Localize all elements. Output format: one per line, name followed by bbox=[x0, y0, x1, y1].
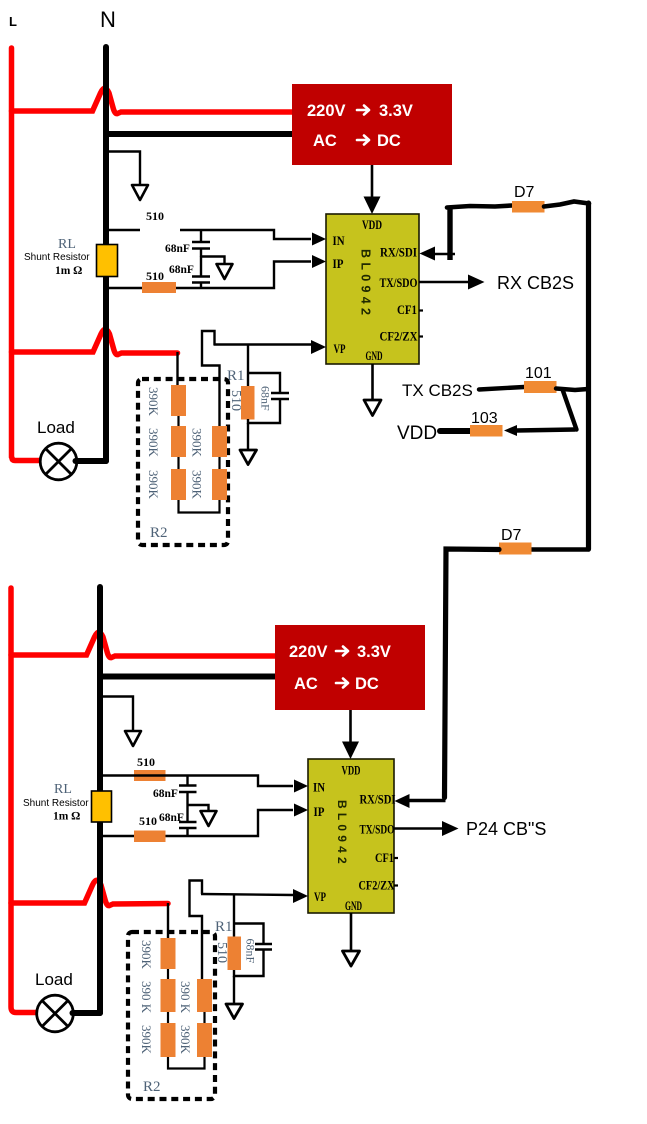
svg-text:68nF: 68nF bbox=[153, 788, 178, 800]
svg-text:DC: DC bbox=[355, 675, 379, 693]
svg-text:RX/SDI: RX/SDI bbox=[380, 246, 417, 260]
svg-text:CF1: CF1 bbox=[375, 851, 394, 865]
svg-text:TX/SDO: TX/SDO bbox=[360, 823, 395, 837]
wire N to converter (black) bbox=[106, 131, 292, 137]
wire c1r1 to c1r2 bbox=[177, 416, 179, 426]
svg-text:IN: IN bbox=[313, 781, 326, 795]
wire IN input 2 bbox=[100, 776, 293, 787]
wire IN input bbox=[106, 230, 311, 239]
svg-text:P24 CB"S: P24 CB"S bbox=[466, 819, 546, 839]
svg-text:VP: VP bbox=[334, 342, 346, 356]
wire TX/SDO output 2 bbox=[394, 827, 444, 830]
svg-text:R1: R1 bbox=[215, 919, 233, 935]
ground symbol G5 bbox=[125, 731, 141, 746]
wire red AC line to converter 2 (with hop over N) bbox=[11, 632, 275, 657]
svg-text:VP: VP bbox=[314, 890, 326, 904]
svg-text:510: 510 bbox=[146, 269, 164, 283]
wire red line to R2 divider (with hop over N) bbox=[12, 329, 178, 354]
svg-text:AC: AC bbox=[313, 132, 337, 150]
pin stub CF2/ZX U2 bbox=[394, 884, 398, 886]
svg-text:TX/SDO: TX/SDO bbox=[380, 276, 418, 290]
resistor 103 body bbox=[470, 425, 503, 437]
svg-text:510: 510 bbox=[139, 814, 157, 828]
svg-text:3.3V: 3.3V bbox=[379, 102, 413, 120]
op IC U1 BL0942 bbox=[326, 214, 419, 364]
converter U-PSU1 220V to 3.3V bbox=[292, 84, 452, 165]
shunt resistor RL body (circuit 2) bbox=[92, 791, 112, 822]
svg-text:390K: 390K bbox=[178, 1025, 193, 1055]
resistor 390K c1r3 body bbox=[171, 469, 186, 500]
svg-text:DC: DC bbox=[377, 132, 401, 150]
wire D7 lower to circuit 2 RX/SDI bbox=[445, 549, 500, 798]
svg-text:IP: IP bbox=[314, 805, 325, 819]
capacitor 68nF lower (C4) bbox=[179, 805, 197, 836]
wire GND of U1 bbox=[371, 364, 374, 399]
svg-text:BL0942: BL0942 bbox=[335, 800, 349, 868]
wire red line into R2 column 1 bbox=[176, 352, 178, 385]
wire c2r2 to c2r3 bbox=[218, 457, 220, 469]
wire diagonal node to VDD row bbox=[563, 391, 577, 430]
resistor D7 (upper) body bbox=[512, 201, 545, 213]
wire N line (black vertical, circuit 2) bbox=[97, 587, 103, 1013]
resistor 390K c2r2 body 2 bbox=[197, 979, 212, 1012]
wire TX/SDO output bbox=[419, 281, 470, 284]
svg-text:IP: IP bbox=[333, 257, 344, 271]
wire to D7 (thick, hand drawn) bbox=[447, 206, 512, 208]
svg-text:101: 101 bbox=[525, 365, 552, 382]
svg-text:68nF: 68nF bbox=[165, 243, 190, 255]
resistor 390K c1r3 body 2 bbox=[161, 1023, 176, 1057]
svg-text:510: 510 bbox=[146, 209, 164, 223]
resistor 510 lower body (circuit 2) bbox=[134, 831, 166, 843]
pin stub CF1 U2 bbox=[394, 857, 398, 859]
resistor R1 body 2 bbox=[228, 937, 242, 971]
resistor 390K c2r3 body bbox=[212, 469, 227, 500]
wire R1 bottom to ground 2 bbox=[233, 976, 235, 1003]
svg-text:390 K: 390 K bbox=[139, 981, 154, 1014]
arrow TX/SDO out bbox=[468, 275, 485, 290]
wire rail to D7 lower bbox=[531, 547, 589, 552]
pin arrow into IP 2 bbox=[294, 804, 308, 817]
wire red line into R2 column 1 (circuit 2) bbox=[167, 903, 169, 938]
pin arrow into RX/SDI circuit 2 bbox=[395, 794, 410, 808]
wire R2 bottom link 2 bbox=[168, 1057, 205, 1069]
svg-text:68nF: 68nF bbox=[159, 812, 184, 824]
pin arrow into IP bbox=[312, 255, 326, 268]
resistor 390K c1r1 body bbox=[171, 385, 186, 416]
svg-text:RX CB2S: RX CB2S bbox=[497, 273, 574, 293]
wire VDD supply into U1 bbox=[364, 165, 381, 214]
svg-text:R2: R2 bbox=[150, 525, 168, 541]
wire main rail vertical bbox=[586, 203, 591, 549]
ground symbol G3 below U1 bbox=[364, 400, 381, 416]
wire VP node down to R1 (circuit 2) bbox=[233, 895, 235, 937]
pin arrow into VP 2 bbox=[293, 889, 308, 903]
load lamp symbol 2 bbox=[37, 995, 74, 1032]
svg-text:68nF: 68nF bbox=[259, 386, 273, 411]
wire N line (black vertical, circuit 1) bbox=[103, 47, 109, 461]
capacitor 68nF upper (C1) bbox=[192, 230, 210, 257]
resistor 390K c2r3 body 2 bbox=[197, 1023, 212, 1057]
resistor network R2 dashed box 2 bbox=[128, 932, 215, 1099]
arrow TX/SDO out 2 bbox=[442, 821, 459, 836]
svg-text:GND: GND bbox=[345, 899, 362, 913]
svg-text:CF2/ZX: CF2/ZX bbox=[380, 330, 419, 344]
wire VP node down to R1 bbox=[247, 345, 249, 387]
svg-text:RX/SDI: RX/SDI bbox=[360, 793, 396, 807]
svg-text:VDD: VDD bbox=[362, 218, 382, 232]
capacitor 68nF beside R1 (circuit 2) bbox=[234, 924, 272, 977]
svg-text:220V: 220V bbox=[289, 643, 328, 661]
wire red line to R2 divider 2 (with hop over N) bbox=[11, 880, 168, 905]
svg-text:N: N bbox=[100, 7, 116, 32]
wire c2r2 to c2r3 (2) bbox=[203, 1012, 205, 1023]
wire D7 to rail bbox=[544, 202, 589, 207]
svg-text:390K: 390K bbox=[139, 1025, 154, 1055]
wire R2 bottom link bbox=[179, 500, 220, 513]
wire RX/SDI thick lead bbox=[434, 253, 455, 256]
ground symbol G1 bbox=[132, 185, 148, 200]
svg-text:R2: R2 bbox=[143, 1079, 161, 1095]
svg-text:RL: RL bbox=[54, 782, 72, 797]
pin arrow into IN bbox=[312, 233, 326, 246]
wire c1r2 to c1r3 bbox=[177, 457, 179, 469]
ground symbol G8 bbox=[226, 1004, 243, 1019]
ground stub from N (circuit 1) bbox=[106, 152, 140, 185]
wire GND of U2 bbox=[350, 913, 353, 950]
resistor 390K c1r2 body bbox=[171, 426, 186, 457]
svg-text:CF2/ZX: CF2/ZX bbox=[359, 879, 396, 893]
svg-text:RL: RL bbox=[58, 237, 76, 252]
resistor 390K c1r1 body 2 bbox=[161, 938, 176, 969]
svg-text:CF1: CF1 bbox=[397, 303, 417, 317]
wire c1r2 to c1r3 (2) bbox=[167, 1012, 169, 1023]
pin stub CF1 U1 bbox=[419, 309, 423, 311]
wire lamp to N bbox=[76, 458, 107, 464]
wire c1r1 to c1r2 (2) bbox=[167, 969, 169, 979]
svg-text:Shunt Resistor: Shunt Resistor bbox=[23, 798, 89, 809]
ground symbol G7 below U2 bbox=[343, 951, 360, 966]
capacitor 68nF upper (C3) bbox=[179, 776, 197, 806]
svg-text:D7: D7 bbox=[501, 527, 522, 544]
wire R1 bottom to ground bbox=[247, 423, 249, 449]
pin arrow into IN 2 bbox=[294, 780, 308, 793]
resistor 101 body bbox=[524, 381, 557, 393]
wire VDD supply into U2 bbox=[342, 710, 359, 759]
svg-text:390K: 390K bbox=[139, 940, 154, 970]
resistor network R2 dashed box bbox=[138, 379, 228, 545]
wire lamp to N 2 bbox=[73, 1010, 101, 1016]
svg-text:390K: 390K bbox=[146, 428, 161, 458]
resistor 390K c2r2 body bbox=[212, 426, 227, 457]
wire VDD thick stub bbox=[440, 428, 471, 434]
svg-text:Shunt Resistor: Shunt Resistor bbox=[24, 252, 90, 263]
op IC U2 BL0942 bbox=[308, 759, 396, 913]
capacitor 68nF beside R1 (branch) bbox=[248, 373, 289, 423]
svg-text:220V: 220V bbox=[307, 102, 346, 120]
svg-text:1m Ω: 1m Ω bbox=[53, 811, 80, 823]
svg-text:IN: IN bbox=[333, 234, 346, 248]
svg-text:510: 510 bbox=[228, 390, 243, 411]
svg-text:VDD: VDD bbox=[342, 764, 361, 778]
wire red AC line to converter (with hop over N) bbox=[12, 88, 293, 113]
wire N to converter 2 (black) bbox=[100, 674, 275, 680]
svg-text:3.3V: 3.3V bbox=[357, 643, 391, 661]
svg-text:510: 510 bbox=[137, 755, 155, 769]
svg-text:68nF: 68nF bbox=[169, 264, 194, 276]
svg-text:1m Ω: 1m Ω bbox=[55, 265, 82, 277]
wire cap midpoint to ground bbox=[201, 257, 225, 264]
ground symbol G6 bbox=[201, 811, 217, 826]
svg-text:D7: D7 bbox=[514, 184, 535, 201]
svg-text:390 K: 390 K bbox=[178, 981, 193, 1014]
wire L line (red vertical, circuit 2) bbox=[11, 588, 37, 1013]
svg-text:GND: GND bbox=[366, 349, 383, 363]
svg-text:BL0942: BL0942 bbox=[359, 249, 373, 319]
capacitor 68nF lower (C2) bbox=[192, 257, 210, 289]
wire 101 to rail node bbox=[556, 389, 588, 391]
svg-text:390K: 390K bbox=[190, 428, 205, 458]
wire IP input bbox=[106, 262, 311, 289]
svg-text:AC: AC bbox=[294, 675, 318, 693]
svg-text:390K: 390K bbox=[146, 470, 161, 500]
svg-text:Load: Load bbox=[35, 970, 73, 989]
resistor 510 lower body (orange) bbox=[142, 282, 176, 293]
pin stub CF2/ZX U1 bbox=[419, 335, 423, 337]
wire L line (red vertical, circuit 1) bbox=[12, 48, 41, 461]
svg-text:VDD: VDD bbox=[397, 423, 437, 444]
resistor R1 body bbox=[241, 386, 255, 420]
resistor 390K c1r2 body 2 bbox=[161, 979, 176, 1012]
converter U-PSU2 220V to 3.3V bbox=[275, 625, 425, 710]
wire cap midpoint to ground 2 bbox=[188, 805, 209, 810]
arrow into 103 bbox=[504, 425, 517, 436]
load lamp symbol bbox=[40, 443, 77, 480]
svg-text:L: L bbox=[9, 14, 17, 29]
svg-text:68nF: 68nF bbox=[244, 939, 258, 964]
ground symbol G4 bbox=[240, 450, 257, 465]
resistor D7 (lower) body bbox=[499, 543, 532, 555]
wire TX CB2S lead bbox=[479, 387, 524, 390]
shunt resistor RL body bbox=[97, 245, 118, 277]
wire VP feed 2 bbox=[201, 894, 293, 895]
wire VP staircase 2 bbox=[190, 881, 203, 980]
wire VP feed bbox=[214, 343, 312, 345]
svg-text:103: 103 bbox=[471, 410, 498, 427]
svg-text:390K: 390K bbox=[190, 470, 205, 500]
pin arrow into RX/SDI bbox=[420, 247, 436, 261]
pin arrow into VP bbox=[311, 340, 326, 354]
wire VDD row to diagonal bbox=[516, 430, 575, 431]
wire IP input 2 bbox=[100, 810, 293, 836]
ground symbol G2 bbox=[217, 264, 233, 279]
ground stub from N (circuit 2) bbox=[100, 697, 133, 731]
wire VP staircase bbox=[202, 331, 220, 426]
svg-text:390K: 390K bbox=[146, 387, 161, 417]
svg-text:Load: Load bbox=[37, 418, 75, 437]
resistor 510 upper body (circuit 2) bbox=[134, 770, 166, 781]
svg-text:TX CB2S: TX CB2S bbox=[402, 381, 473, 400]
